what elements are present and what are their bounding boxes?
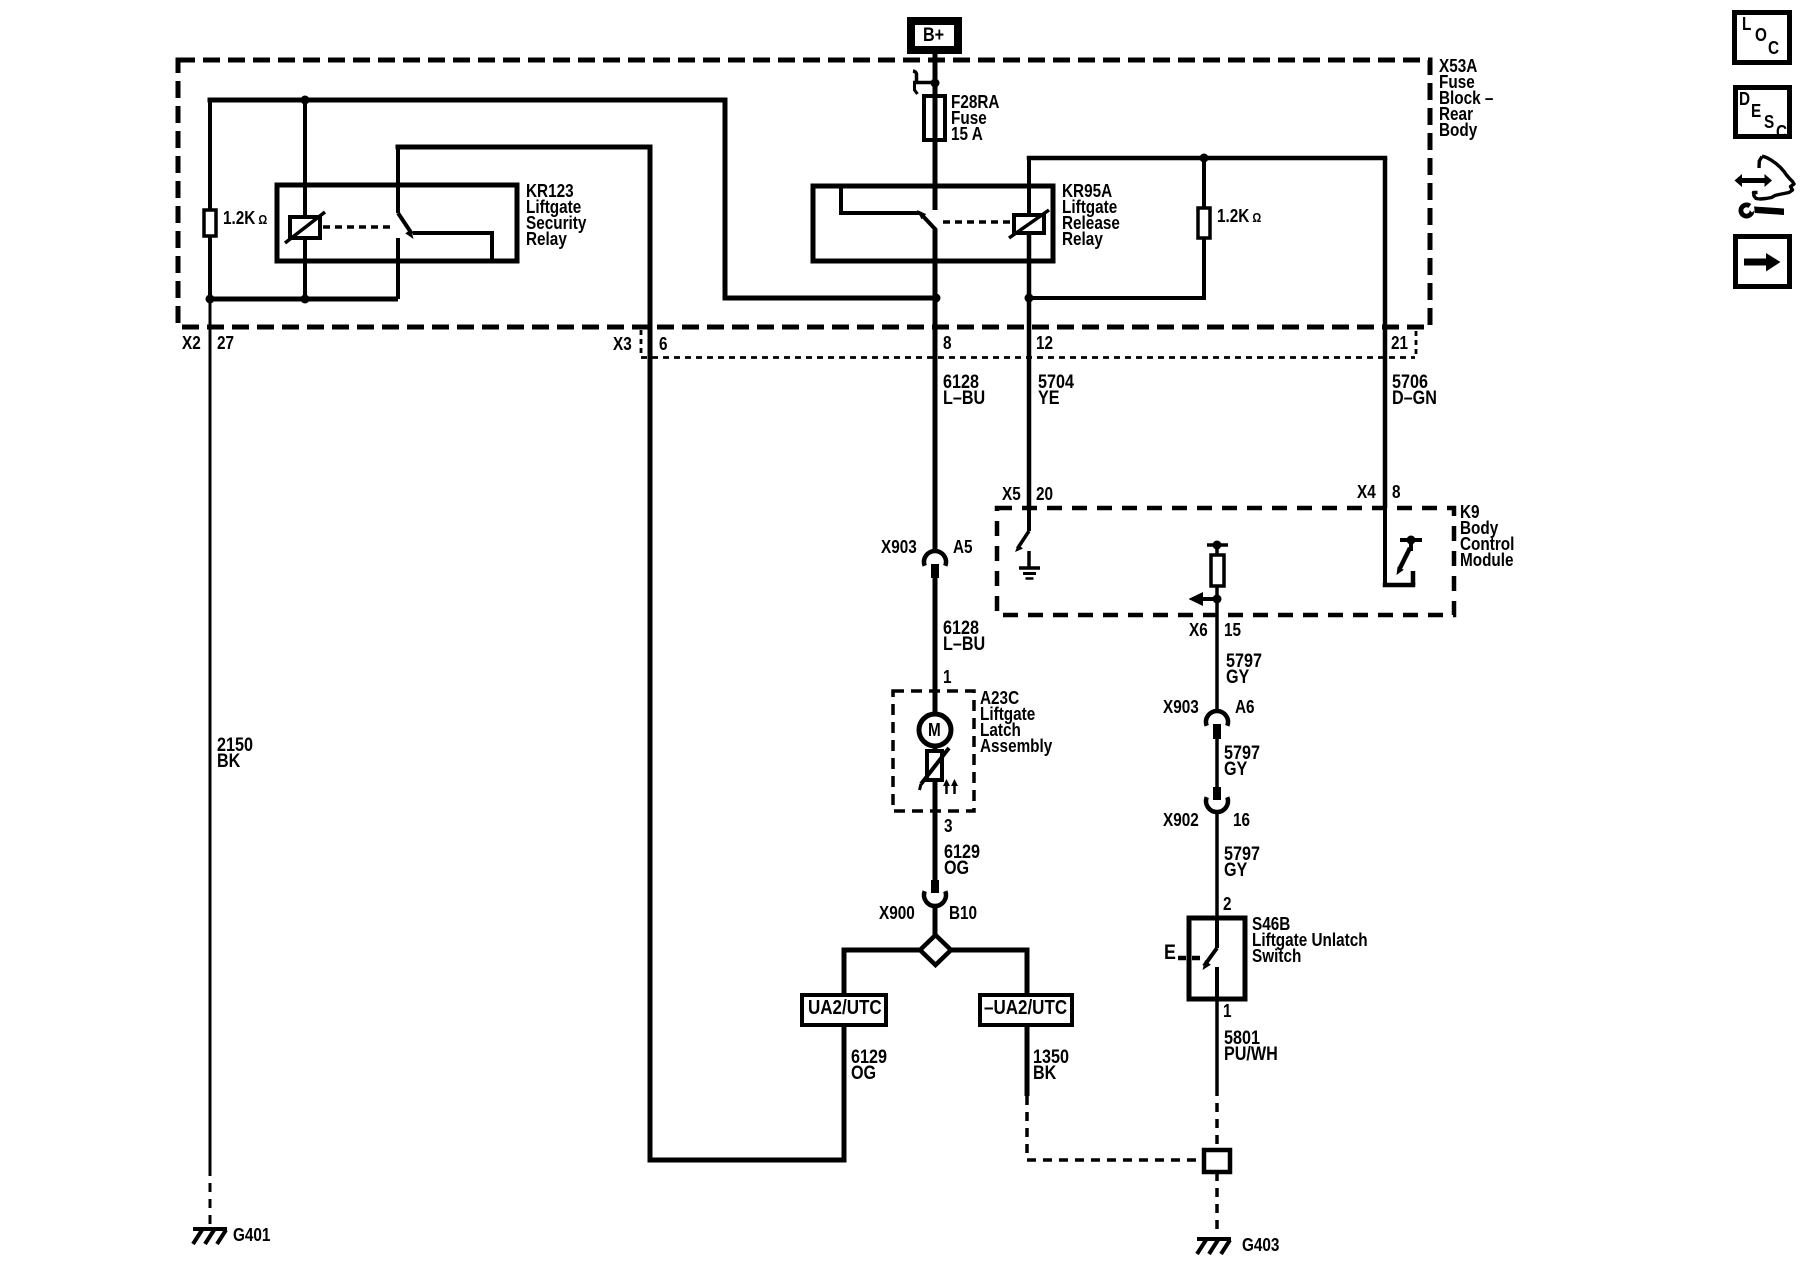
label connector X903 A6 — [1163, 699, 1199, 715]
label connector X5 — [1002, 486, 1021, 502]
BCM internal resistor — [1211, 555, 1224, 586]
label pin 16 — [1233, 812, 1250, 828]
switch S46B box — [1189, 918, 1245, 999]
label connector X2 — [182, 335, 201, 351]
relay KR123 switch blade — [398, 213, 414, 239]
wire 6129 below UA2/UTC — [842, 1025, 847, 1160]
relay KR95A box — [813, 186, 1053, 261]
connector X3 strip dashed line — [641, 330, 1416, 358]
wire 1350 dashed to splice pack — [1027, 1096, 1204, 1160]
icon DESC box — [1736, 88, 1790, 137]
connector X900 B10 — [924, 880, 946, 906]
label wire 5704 YE — [1038, 375, 1074, 407]
switch S46B lower contact wire — [1215, 967, 1219, 999]
fuse block X53A dashed box — [178, 60, 1430, 327]
label module K9 — [1460, 504, 1514, 568]
wire KR123 bottom bus — [210, 297, 398, 302]
relay KR123 coil — [285, 212, 325, 243]
ground G403 — [1197, 1239, 1231, 1254]
label wire 5797 GY third — [1224, 847, 1260, 879]
label relay KR95A — [1062, 183, 1120, 247]
wire 5706 from coil bus to BCM X4-8 — [1383, 158, 1388, 508]
wire X900 to splice — [933, 906, 938, 935]
label pin 15 — [1224, 622, 1241, 638]
label pin 20 — [1036, 486, 1053, 502]
label pin 8 BCM — [1392, 484, 1401, 500]
relay KR95A switch common wire — [839, 188, 920, 213]
BCM X5-20 internal switch wire — [1027, 508, 1031, 531]
wire 5797 between connectors — [1215, 739, 1219, 787]
node E dashed link — [1178, 956, 1200, 961]
relay KR95A switch blade — [917, 210, 936, 230]
label switch S46B — [1252, 916, 1368, 964]
label fuse -UA2/UTC — [984, 1000, 1067, 1016]
wire KR123 common to X3-6 — [396, 147, 847, 1160]
label fuse block X53A — [1439, 58, 1493, 138]
wire fuse output through KR95A contacts — [933, 229, 938, 552]
junction node coil bottom KR123 — [301, 295, 310, 304]
label ground G401 — [233, 1227, 270, 1243]
wire 2150 dashed to ground — [209, 1167, 212, 1224]
label pin 8 — [943, 335, 952, 351]
icon LOC letters — [1742, 16, 1751, 32]
label resistor 1.2K right — [1217, 208, 1261, 226]
in-line connector hook symbol at fuse feed — [913, 71, 935, 94]
relay KR123 switch common wire — [396, 147, 400, 213]
relay KR123 coil link dashed — [323, 225, 392, 229]
wire B+ feed to fuse — [933, 54, 938, 210]
label pin 21 — [1391, 335, 1408, 351]
wire splice to UA2/UTC — [842, 950, 921, 995]
BCM X5-20 switch blade — [1015, 531, 1029, 552]
junction node coil top KR123 — [301, 96, 310, 105]
label wire 5797 GY first — [1226, 654, 1262, 686]
label wire 6129 OG upper — [944, 845, 980, 877]
wire KR95A coil bottom bus — [1029, 296, 1206, 300]
wire 2150 BK — [209, 299, 212, 1167]
resistor 1.2K KR123 leads — [208, 100, 212, 299]
junction node fuse output bus — [932, 294, 941, 303]
ground symbol inside BCM — [1019, 551, 1040, 579]
fuse box UA2/UTC — [802, 995, 886, 1025]
ground G401 — [193, 1229, 227, 1244]
junction node at fuse feed — [931, 79, 940, 88]
label wire 5797 GY second — [1224, 746, 1260, 778]
label B+ — [923, 28, 944, 44]
label wire 6128 L-BU upper — [943, 375, 985, 407]
label pin 12 — [1036, 335, 1053, 351]
label wire 2150 BK — [217, 738, 253, 770]
label wire 5801 PU/WH — [1224, 1031, 1278, 1063]
label connector X3 — [613, 336, 632, 352]
connector X903 A6 — [1206, 711, 1228, 739]
fuse F28RA 15A — [924, 96, 945, 140]
wire splice to -UA2/UTC — [951, 950, 1030, 995]
wire 6128 to latch motor — [933, 578, 938, 714]
wire top bus from KR123 to KR95A junction — [208, 100, 935, 298]
junction node KR95A coil bottom — [1025, 294, 1034, 303]
B+ power symbol box — [911, 21, 958, 50]
latch direction arrows — [943, 779, 958, 794]
icon car outline — [1754, 156, 1795, 199]
icon LOC box — [1735, 13, 1790, 63]
switch S46B upper contact wire — [1215, 918, 1219, 948]
icon double arrow — [1735, 174, 1773, 187]
icon DESC letters — [1739, 91, 1750, 107]
splice diamond — [920, 935, 951, 965]
label pin 2 switch — [1223, 896, 1232, 912]
label wire 5706 D-GN — [1392, 375, 1437, 407]
icon wrench — [1739, 201, 1785, 219]
relay KR123 box — [277, 185, 517, 261]
label connector X6 — [1189, 622, 1208, 638]
in-line connector square on 5801 — [1204, 1150, 1230, 1172]
label wire 6128 L-BU lower — [943, 621, 985, 653]
fuse box -UA2/UTC — [980, 995, 1072, 1025]
label pin 1 latch — [943, 669, 952, 685]
label relay KR123 — [526, 183, 586, 247]
BCM X4-8 switch top contact — [1400, 536, 1422, 552]
relay KR123 switch lower lead — [396, 238, 400, 299]
label wire 1350 BK — [1033, 1050, 1069, 1082]
BCM internal resistor top tick — [1207, 545, 1228, 555]
label pin 27 — [217, 335, 234, 351]
relay KR95A coil top lead — [1027, 158, 1031, 215]
liftgate latch assembly A23C dashed box — [893, 691, 974, 811]
resistor 1.2K (KR95A side) leads — [1202, 158, 1206, 298]
label pin B10 — [949, 905, 977, 921]
body control module K9 dashed box — [997, 508, 1454, 615]
label pin A6 — [1235, 699, 1255, 715]
label wire 6129 OG lower — [851, 1050, 887, 1082]
relay KR123 fixed contact — [413, 233, 494, 259]
junction node resistor bottom KR123 — [206, 295, 215, 304]
label pin 6 — [659, 336, 668, 352]
wire KR95A coil top bus — [1027, 156, 1388, 161]
relay KR95A coil — [1009, 210, 1049, 238]
label connector X903 A5 — [881, 539, 917, 555]
label pin A5 — [953, 539, 973, 555]
connector X902 16 — [1206, 787, 1228, 812]
junction node resistor tick — [1213, 541, 1222, 550]
KR123 coil lead — [303, 100, 307, 299]
wire 5797 to S46B — [1215, 812, 1219, 918]
label ground G403 — [1242, 1237, 1279, 1253]
BCM signal direction arrow — [1189, 592, 1218, 606]
connector X903 A5 — [924, 551, 946, 578]
wire 5801 dashed to ground — [1215, 1172, 1219, 1234]
wire 5801 dashed part — [1215, 1087, 1219, 1147]
label latch assembly A23C — [980, 690, 1052, 754]
wire 5797 below BCM — [1215, 615, 1219, 712]
latch mechanism link — [920, 746, 950, 790]
resistor 1.2K (KR123 side) — [204, 210, 216, 236]
label resistor 1.2K left — [223, 210, 267, 228]
label motor M — [928, 722, 941, 738]
label connector X902 — [1163, 812, 1199, 828]
wire 1350 below -UA2/UTC — [1025, 1025, 1030, 1096]
junction node arrow on wire — [1213, 595, 1222, 604]
label fuse F28RA — [951, 94, 999, 142]
BCM X4-8 switch blade — [1397, 548, 1411, 575]
label pin 1 switch — [1223, 1003, 1232, 1019]
junction node resistor top KR95A — [1200, 154, 1209, 163]
BCM X4-8 internal switch wire — [1383, 508, 1416, 585]
label node E — [1164, 945, 1176, 961]
resistor 1.2K (KR95A side) — [1198, 208, 1210, 238]
label connector X4 — [1357, 484, 1376, 500]
wire 5801 solid part — [1215, 999, 1219, 1087]
switch S46B blade — [1203, 948, 1218, 970]
label connector X900 — [879, 905, 915, 921]
label pin 3 latch — [944, 818, 953, 834]
wire 5704 coil bottom down to BCM — [1027, 233, 1032, 508]
motor M of A23C — [919, 714, 951, 746]
icon arrow box — [1736, 237, 1790, 287]
BCM internal resistor lower lead — [1215, 586, 1219, 615]
label fuse UA2/UTC — [808, 1000, 882, 1016]
relay KR95A coil link dashed — [943, 220, 1012, 224]
wire 6129 latch to X900 — [933, 780, 938, 880]
